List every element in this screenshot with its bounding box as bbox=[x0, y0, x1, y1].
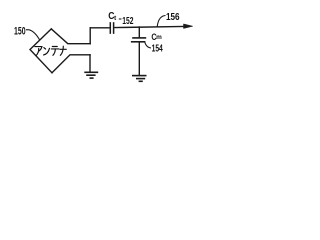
ground GND1 (antenna) bbox=[84, 72, 98, 78]
svg-text:154: 154 bbox=[152, 44, 163, 55]
leader line for 154 bbox=[145, 42, 151, 48]
antenna lower-right edge and stub bbox=[52, 55, 90, 73]
leader line for 150 bbox=[26, 30, 40, 40]
svg-text:150: 150 bbox=[14, 26, 26, 38]
leader line for 156 bbox=[157, 16, 165, 27]
wire main horizontal from Ct to arrow bbox=[114, 26, 184, 27]
antenna upper-right edge and stub bbox=[51, 29, 90, 44]
capacitor Cm top plate bbox=[133, 37, 145, 39]
svg-text:152: 152 bbox=[122, 16, 133, 27]
capacitor Ct right plate bbox=[113, 23, 115, 33]
antenna 150 diamond body left half bbox=[30, 29, 52, 73]
arrowhead output bbox=[184, 24, 193, 29]
capacitor Ct left plate bbox=[109, 23, 111, 33]
svg-text:156: 156 bbox=[166, 12, 180, 23]
wire junction drop to capacitor Cm bbox=[138, 27, 140, 37]
wire drop from antenna lower stub to ground bbox=[89, 55, 91, 72]
leader dash for 152 bbox=[119, 18, 122, 20]
svg-text:m: m bbox=[156, 34, 162, 41]
wire main horizontal from riser to capacitor Ct bbox=[90, 27, 109, 29]
wire from Cm bottom plate to ground bbox=[138, 42, 140, 75]
wire riser from antenna upper stub to main wire bbox=[89, 28, 91, 44]
ground GND2 (Cm) bbox=[132, 76, 147, 82]
antenna text アンテナ bbox=[35, 46, 67, 55]
capacitor Cm bottom plate bbox=[132, 41, 145, 43]
